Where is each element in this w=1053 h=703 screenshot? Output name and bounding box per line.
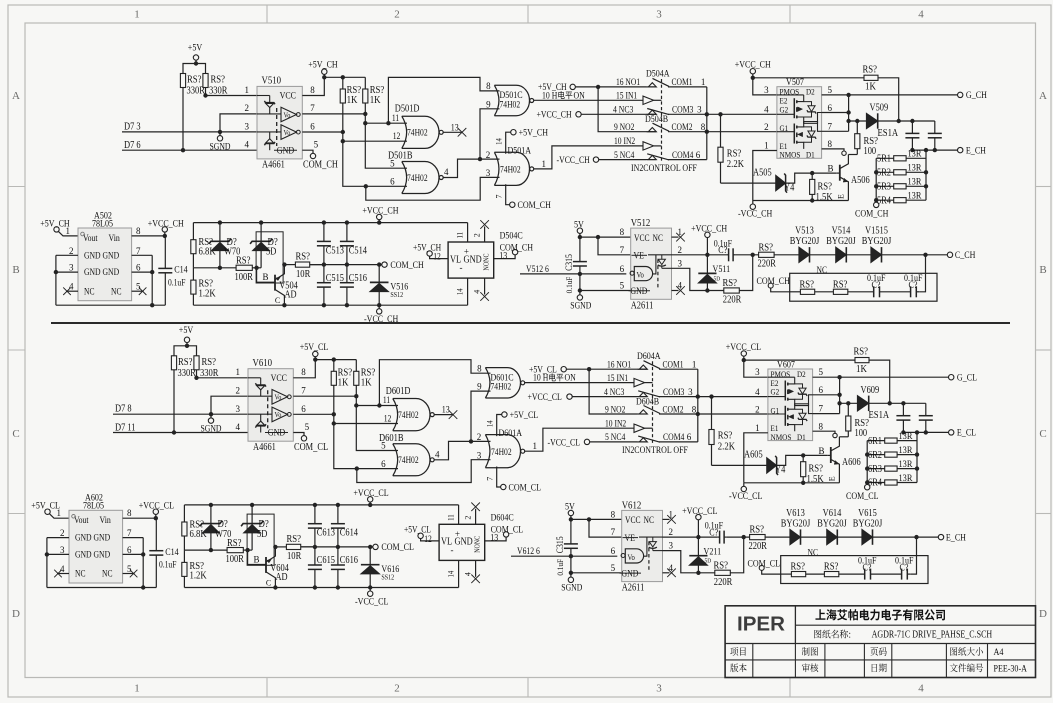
svg-text:RS?: RS? bbox=[759, 242, 774, 253]
resistor 6R2 13R bbox=[867, 454, 885, 456]
junction bbox=[218, 266, 222, 270]
svg-text:9 NO2: 9 NO2 bbox=[605, 404, 625, 414]
wire pin5 row to G_CL bbox=[813, 376, 949, 378]
svg-text:COM3: COM3 bbox=[672, 105, 694, 115]
junction bbox=[751, 76, 755, 80]
svg-text:5D: 5D bbox=[714, 276, 721, 282]
wire pin8 to collector bbox=[822, 149, 844, 151]
terminal G_CH bbox=[958, 92, 963, 97]
capacitor (snubber cap 1) bbox=[902, 403, 904, 415]
wire pin8 to +VCC terminal bbox=[123, 517, 156, 519]
svg-text:NMOS: NMOS bbox=[780, 150, 801, 160]
svg-text:VCC: VCC bbox=[280, 92, 296, 102]
svg-text:4: 4 bbox=[435, 449, 440, 459]
wire pin13 to COM terminal bbox=[485, 537, 506, 541]
switch contact NO1 bbox=[646, 86, 657, 88]
wire NO1 row bbox=[575, 86, 646, 88]
wire pin1 V510 bbox=[206, 95, 258, 97]
svg-text:1: 1 bbox=[56, 508, 61, 518]
NOR gate D601A 74H02 bbox=[485, 435, 520, 468]
wire COM4 bbox=[659, 441, 698, 443]
svg-text:1K: 1K bbox=[347, 95, 359, 106]
svg-text:4: 4 bbox=[918, 9, 924, 21]
wire to terminal E_CH bbox=[873, 536, 939, 538]
wire 220R to diodes bbox=[765, 536, 790, 538]
svg-text:D604C: D604C bbox=[491, 514, 514, 524]
junction bbox=[596, 85, 600, 89]
svg-text:78L05: 78L05 bbox=[92, 219, 113, 229]
svg-text:RS?: RS? bbox=[854, 347, 869, 358]
terminal COM_CH mid bbox=[382, 262, 387, 267]
junction bbox=[846, 119, 850, 123]
svg-text:E_CH: E_CH bbox=[966, 146, 986, 156]
wire pin2 bbox=[220, 114, 257, 132]
dashed link inside V510 bbox=[276, 108, 278, 146]
resistor RS? 1K (left) bbox=[333, 360, 335, 372]
MOS driver box V607 bbox=[768, 369, 813, 441]
svg-text:Y4: Y4 bbox=[775, 465, 785, 476]
switch contact NO1 bbox=[637, 368, 648, 370]
wire feedback to D601C pin8 bbox=[379, 360, 490, 406]
svg-text:+5V: +5V bbox=[179, 326, 194, 336]
svg-text:2: 2 bbox=[764, 122, 769, 132]
wire feedback to D501C pin8 bbox=[388, 77, 499, 123]
junction bbox=[313, 545, 317, 549]
svg-text:Vo: Vo bbox=[637, 271, 644, 280]
svg-text:7: 7 bbox=[819, 404, 824, 414]
wire NC3 row bbox=[572, 396, 637, 398]
junction bbox=[332, 421, 336, 425]
wire COM3 row to G2 bbox=[668, 113, 777, 115]
wire bbox=[837, 536, 862, 538]
svg-text:COM_CL: COM_CL bbox=[491, 526, 524, 536]
wire +5V rail to resistors bbox=[174, 346, 197, 356]
svg-text:D501A: D501A bbox=[508, 147, 532, 157]
wire D501B pin6 row continues to D501A pin3 bbox=[366, 185, 407, 187]
capacitor (snubber cap 2) bbox=[934, 121, 936, 133]
svg-text:D604B: D604B bbox=[636, 398, 659, 408]
svg-text:3: 3 bbox=[656, 9, 662, 21]
terminal E_CL bbox=[949, 430, 954, 435]
capacitor C616 bbox=[337, 547, 339, 565]
svg-text:4: 4 bbox=[444, 167, 449, 177]
transistor A606 bbox=[830, 447, 832, 463]
dashed link inside V610 bbox=[267, 390, 269, 428]
wire LED to pin3 inside box bbox=[653, 550, 663, 552]
PMOS transistor symbol bbox=[768, 396, 785, 398]
title block cells row 1 bbox=[730, 647, 745, 656]
zener inside V510 (top) bbox=[257, 95, 270, 97]
svg-text:C_CH: C_CH bbox=[955, 251, 976, 261]
svg-text:-VCC_CL: -VCC_CL bbox=[729, 492, 763, 502]
junction bbox=[915, 430, 919, 434]
svg-text:COM1: COM1 bbox=[663, 360, 684, 370]
power terminal +VCC_CL bbox=[153, 509, 158, 514]
wire COM2 row to G1 bbox=[659, 413, 768, 415]
wire pin6 row bbox=[813, 394, 840, 396]
wire E row bbox=[903, 431, 948, 433]
svg-text:1.5K: 1.5K bbox=[816, 192, 834, 203]
capacitor (snubber cap 2) bbox=[925, 403, 927, 415]
svg-text:7: 7 bbox=[495, 195, 504, 199]
svg-text:16 NO1: 16 NO1 bbox=[616, 77, 640, 87]
svg-text:V514: V514 bbox=[832, 226, 851, 237]
junction bbox=[924, 430, 928, 434]
wire pin6 row bbox=[822, 112, 849, 114]
svg-text:+5V: +5V bbox=[188, 44, 203, 54]
svg-text:GND: GND bbox=[277, 146, 295, 156]
svg-text:RS?: RS? bbox=[296, 252, 311, 263]
resistor RS? 6.8K bbox=[192, 223, 194, 240]
dashed link inside V612 bbox=[648, 542, 650, 572]
resistor RS? 220R (lower) bbox=[715, 570, 731, 575]
wire pin12 row bbox=[343, 140, 407, 142]
optocoupler V512 A2611 box bbox=[631, 228, 672, 299]
svg-text:1K: 1K bbox=[361, 377, 373, 388]
buffer gate 2 inside V510 bbox=[281, 125, 297, 140]
no-connect pin5 bbox=[123, 573, 135, 575]
svg-text:6: 6 bbox=[390, 177, 395, 187]
junction bbox=[377, 262, 381, 266]
svg-text:9 NO2: 9 NO2 bbox=[614, 122, 634, 132]
svg-text:RS?: RS? bbox=[287, 534, 302, 545]
junction bbox=[569, 571, 573, 575]
wire +5V rail to resistors bbox=[183, 64, 206, 74]
wire pin2 row bbox=[663, 536, 718, 538]
svg-text:6: 6 bbox=[828, 103, 833, 113]
svg-text:BYG20J: BYG20J bbox=[817, 519, 847, 530]
svg-text:0.1uF: 0.1uF bbox=[168, 277, 185, 287]
resistor RS? 1K (gate) bbox=[854, 359, 856, 361]
svg-text:C14: C14 bbox=[174, 266, 188, 276]
svg-text:1: 1 bbox=[701, 77, 706, 87]
ground terminal SGND bbox=[219, 132, 221, 136]
junction bbox=[322, 303, 326, 307]
wire 2.2K to zener A605 bbox=[712, 464, 767, 466]
svg-text:COM2: COM2 bbox=[672, 122, 693, 132]
svg-text:0.1uF: 0.1uF bbox=[159, 560, 176, 570]
wire pin2 row bbox=[672, 254, 727, 256]
svg-text:6: 6 bbox=[696, 150, 701, 160]
power terminal +5V bbox=[193, 55, 198, 60]
svg-text:BYG20J: BYG20J bbox=[826, 236, 856, 247]
wire ladder right tie bbox=[916, 432, 918, 482]
svg-text:4: 4 bbox=[60, 564, 65, 574]
terminal G_CL bbox=[949, 375, 954, 380]
svg-text:3: 3 bbox=[245, 122, 250, 132]
wire snubber +VCC rail bbox=[184, 504, 458, 506]
svg-text:3: 3 bbox=[688, 387, 693, 397]
junction bbox=[915, 452, 919, 456]
svg-text:5: 5 bbox=[305, 422, 310, 432]
svg-text:B: B bbox=[253, 555, 259, 565]
capacitor C515 bbox=[323, 265, 325, 283]
wire pin12 row bbox=[334, 423, 398, 425]
wire pin3 bbox=[220, 131, 257, 133]
wire pin2 bbox=[211, 396, 248, 414]
zone ticks right bbox=[1036, 186, 1052, 188]
svg-text:7: 7 bbox=[136, 246, 141, 256]
wire pin11 row bbox=[365, 122, 407, 124]
svg-text:D504A: D504A bbox=[646, 70, 670, 80]
wire COM3 row to G2 bbox=[659, 396, 768, 398]
resistor RS? 1.5K bbox=[811, 173, 813, 179]
svg-text:+5V_CL: +5V_CL bbox=[510, 411, 539, 421]
junction bbox=[154, 516, 158, 520]
junction bbox=[368, 503, 372, 507]
svg-text:4: 4 bbox=[245, 140, 250, 150]
svg-text:Vo: Vo bbox=[275, 411, 282, 419]
wire 100 to collector node bbox=[848, 154, 857, 156]
junction bbox=[587, 517, 591, 521]
svg-text:8: 8 bbox=[477, 364, 482, 374]
junction bbox=[865, 480, 869, 484]
svg-text:4 NC3: 4 NC3 bbox=[604, 387, 625, 397]
svg-text:RS?: RS? bbox=[727, 148, 742, 159]
switch contact NO2 bbox=[637, 413, 648, 415]
wire NC4 row bbox=[590, 441, 637, 443]
svg-text:-VCC_CL: -VCC_CL bbox=[548, 437, 581, 447]
svg-text:4: 4 bbox=[236, 422, 241, 432]
junction bbox=[363, 112, 367, 116]
power terminal +VCC_CH mid bbox=[377, 214, 382, 219]
input NAND gate inside V612 bbox=[621, 554, 625, 558]
resistor RS? 220R (upper) bbox=[750, 535, 766, 540]
svg-text:COM_CH: COM_CH bbox=[855, 210, 889, 220]
power terminal +VCC_CL mid bbox=[368, 497, 373, 502]
svg-text:G_CL: G_CL bbox=[957, 374, 977, 384]
junction bbox=[469, 439, 473, 443]
PMOS body zener bbox=[795, 384, 803, 388]
opto LED inside V512 bbox=[661, 255, 663, 259]
wire pin14 to -VCC rail bbox=[458, 560, 460, 587]
svg-text:A4661: A4661 bbox=[253, 442, 276, 453]
svg-text:5R3: 5R3 bbox=[877, 182, 891, 193]
wire pins 2,3 ground tie bbox=[56, 254, 78, 256]
wire to pin9 of D601C bbox=[471, 391, 491, 441]
svg-text:D2: D2 bbox=[797, 369, 806, 379]
svg-text:C513: C513 bbox=[326, 245, 344, 256]
svg-text:IN2CONTROL OFF: IN2CONTROL OFF bbox=[622, 445, 688, 455]
resistor RS? 330R (left) bbox=[173, 355, 175, 357]
svg-text:8: 8 bbox=[486, 81, 491, 91]
NOR gate D501B 74H02 bbox=[402, 162, 439, 194]
buffer IC V510 A4661 box bbox=[257, 86, 302, 158]
power terminal -VCC_CH bbox=[750, 204, 755, 209]
svg-text:1.5K: 1.5K bbox=[807, 474, 825, 485]
svg-text:SGND: SGND bbox=[210, 141, 231, 151]
svg-text:BYG20J: BYG20J bbox=[862, 236, 892, 247]
svg-text:Vo: Vo bbox=[275, 394, 282, 402]
svg-text:C?: C? bbox=[718, 246, 727, 256]
svg-text:13R: 13R bbox=[908, 150, 922, 160]
svg-text:C?: C? bbox=[872, 281, 881, 291]
junction bbox=[336, 585, 340, 589]
svg-text:5: 5 bbox=[828, 85, 833, 95]
svg-text:+VCC_CH: +VCC_CH bbox=[362, 207, 398, 217]
svg-text:BYG20J: BYG20J bbox=[790, 236, 820, 247]
component outline box (5D + base) bbox=[247, 514, 274, 565]
wire COM4 bbox=[668, 159, 707, 161]
svg-text:SGND: SGND bbox=[201, 424, 222, 434]
svg-text:+VCC_CH: +VCC_CH bbox=[537, 110, 572, 120]
svg-text:15 IN1: 15 IN1 bbox=[616, 91, 637, 101]
svg-text:10R: 10R bbox=[287, 551, 302, 562]
wire snubber mid rail bbox=[193, 267, 236, 269]
PMOS body zener bbox=[804, 102, 812, 106]
wire pin8 to +5V_CL bbox=[293, 360, 315, 378]
svg-text:G2: G2 bbox=[780, 104, 789, 114]
wire to terminal C_CH bbox=[882, 254, 948, 256]
svg-text:-VCC_CH: -VCC_CH bbox=[364, 315, 398, 325]
resistor RS? 100R bbox=[227, 548, 243, 553]
svg-text:COM_CL: COM_CL bbox=[381, 543, 414, 553]
resistor RS? 100R bbox=[236, 265, 252, 270]
svg-text:C516: C516 bbox=[349, 273, 367, 284]
junction bbox=[596, 235, 600, 239]
switch contact NC4 bbox=[646, 159, 657, 161]
wire COM vertical ties bbox=[706, 87, 708, 160]
junction bbox=[924, 184, 928, 188]
svg-text:4 NC3: 4 NC3 bbox=[613, 105, 634, 115]
junction bbox=[837, 375, 841, 379]
wire pin5 row bbox=[571, 572, 622, 574]
wire +5V_CH rail bbox=[324, 76, 365, 78]
wire 1K down to diode row bbox=[869, 360, 890, 404]
switch contact NC3 bbox=[646, 113, 657, 115]
wire +VCC rail to 1K bbox=[753, 77, 864, 79]
svg-text:COM_CL: COM_CL bbox=[294, 442, 328, 453]
svg-text:SGND: SGND bbox=[570, 300, 591, 310]
svg-text:15 IN1: 15 IN1 bbox=[607, 373, 628, 383]
svg-text:E_CH: E_CH bbox=[946, 533, 966, 543]
wire +VCC to pin3 bbox=[753, 78, 777, 95]
wire pin7 row bbox=[822, 130, 849, 132]
title block outline bbox=[725, 606, 1035, 678]
ground terminal SGND bbox=[570, 573, 572, 577]
wire LED to pin3 inside box bbox=[662, 267, 672, 269]
svg-text:B: B bbox=[12, 264, 19, 276]
no-connect pin4 bbox=[484, 278, 486, 294]
wire feedback to diode row bbox=[919, 255, 925, 292]
no-connect pin5 bbox=[132, 290, 144, 292]
diode V513 BYG20J bbox=[799, 247, 810, 262]
svg-text:2: 2 bbox=[60, 528, 65, 538]
svg-text:5 NC4: 5 NC4 bbox=[614, 150, 635, 160]
resistor 6R3 13R bbox=[867, 468, 885, 470]
junction bbox=[915, 466, 919, 470]
svg-text:8: 8 bbox=[828, 139, 833, 149]
svg-text:2: 2 bbox=[755, 404, 760, 414]
junction bbox=[209, 412, 213, 416]
svg-text:12: 12 bbox=[433, 252, 441, 262]
svg-text:V512 6: V512 6 bbox=[526, 264, 549, 274]
svg-text:3: 3 bbox=[669, 541, 674, 551]
svg-text:6: 6 bbox=[687, 432, 692, 442]
svg-text:74H02: 74H02 bbox=[491, 382, 512, 392]
wire COM1 bbox=[668, 86, 707, 88]
svg-text:C614: C614 bbox=[340, 528, 358, 539]
junction bbox=[332, 412, 336, 416]
svg-text:COM_CH: COM_CH bbox=[500, 243, 534, 253]
junction bbox=[345, 303, 349, 307]
svg-text:COM4: COM4 bbox=[672, 150, 694, 160]
junction bbox=[377, 220, 381, 224]
junction bbox=[801, 453, 805, 457]
wire bbox=[846, 254, 871, 256]
wire D501A output (pin1) to IN2 bbox=[534, 146, 644, 169]
junction bbox=[910, 119, 914, 123]
junction bbox=[45, 552, 49, 556]
svg-text:0.1uF: 0.1uF bbox=[564, 276, 574, 293]
svg-text:NC: NC bbox=[84, 286, 95, 296]
title block cells row 2 bbox=[730, 663, 746, 672]
wire snubber -VCC rail bbox=[193, 304, 467, 306]
junction bbox=[751, 253, 755, 257]
svg-text:NC: NC bbox=[111, 286, 122, 296]
svg-text:7: 7 bbox=[127, 528, 132, 538]
svg-text:Vo: Vo bbox=[284, 111, 291, 119]
resistor RS? 10R bbox=[275, 546, 286, 548]
svg-text:COM4: COM4 bbox=[663, 432, 685, 442]
svg-text:+VCC_CL: +VCC_CL bbox=[682, 507, 717, 517]
diode V609 ES1A bbox=[857, 396, 868, 411]
wire pin7 row bbox=[589, 519, 622, 537]
buffer gate 1 inside V510 bbox=[281, 107, 297, 122]
svg-text:SGND: SGND bbox=[561, 583, 582, 593]
junction bbox=[209, 548, 213, 552]
wire 100R to base bbox=[243, 549, 252, 551]
svg-text:A605: A605 bbox=[744, 450, 763, 461]
opto LED inside V612 bbox=[652, 537, 654, 542]
svg-text:A505: A505 bbox=[753, 167, 772, 178]
junction bbox=[874, 170, 878, 174]
svg-text:8: 8 bbox=[620, 227, 625, 237]
svg-text:ES1A: ES1A bbox=[869, 410, 890, 421]
wire D7 6 to pin4 bbox=[122, 149, 257, 151]
wire buffer1 output row (pin7) bbox=[302, 113, 365, 115]
zone ticks left bbox=[8, 186, 25, 188]
svg-text:V509: V509 bbox=[870, 103, 889, 114]
svg-text:C: C bbox=[1039, 428, 1046, 440]
svg-text:74H02: 74H02 bbox=[407, 128, 428, 138]
junction bbox=[203, 93, 207, 97]
wire vertical pin7 to pin5 of D601B bbox=[356, 396, 398, 450]
svg-text:3: 3 bbox=[69, 263, 74, 273]
svg-text:5: 5 bbox=[390, 158, 395, 168]
junction bbox=[709, 394, 713, 398]
junction bbox=[377, 403, 381, 407]
wire snubber COM row bbox=[301, 546, 373, 548]
junction bbox=[209, 503, 213, 507]
ground pin7 of D601A bbox=[497, 467, 501, 488]
junction bbox=[141, 585, 145, 589]
wire D501C output to IN1 with label 10 H level ON bbox=[525, 382, 635, 384]
svg-text:5: 5 bbox=[314, 140, 319, 150]
buffer IC V610 A4661 box bbox=[248, 369, 293, 442]
junction bbox=[865, 466, 869, 470]
svg-text:7: 7 bbox=[310, 103, 315, 113]
upper channel CH circuit group bbox=[40, 44, 987, 326]
wire snubber mid rail bbox=[184, 549, 227, 551]
svg-text:RS?: RS? bbox=[211, 75, 226, 86]
svg-text:+VCC_CH: +VCC_CH bbox=[148, 219, 184, 229]
svg-text:ES1A: ES1A bbox=[878, 128, 899, 139]
resistor 5R4 13R bbox=[876, 199, 894, 201]
svg-text:5: 5 bbox=[381, 441, 386, 451]
capacitor C613 bbox=[314, 505, 316, 524]
power terminal -VCC_CL bbox=[741, 486, 746, 491]
